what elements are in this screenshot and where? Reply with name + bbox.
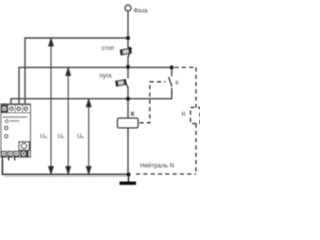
svg-text:Uн: Uн <box>40 134 47 140</box>
svg-text:Uс: Uс <box>58 134 65 140</box>
svg-text:К: К <box>176 81 180 87</box>
svg-text:Uк: Uк <box>77 134 84 140</box>
svg-text:R: R <box>182 112 186 118</box>
svg-text:стоп: стоп <box>102 45 115 52</box>
svg-text:К: К <box>131 111 135 118</box>
svg-text:Фаза: Фаза <box>134 9 149 15</box>
svg-text:пуск: пуск <box>100 73 112 80</box>
svg-text:Нейтраль N: Нейтраль N <box>140 163 174 170</box>
